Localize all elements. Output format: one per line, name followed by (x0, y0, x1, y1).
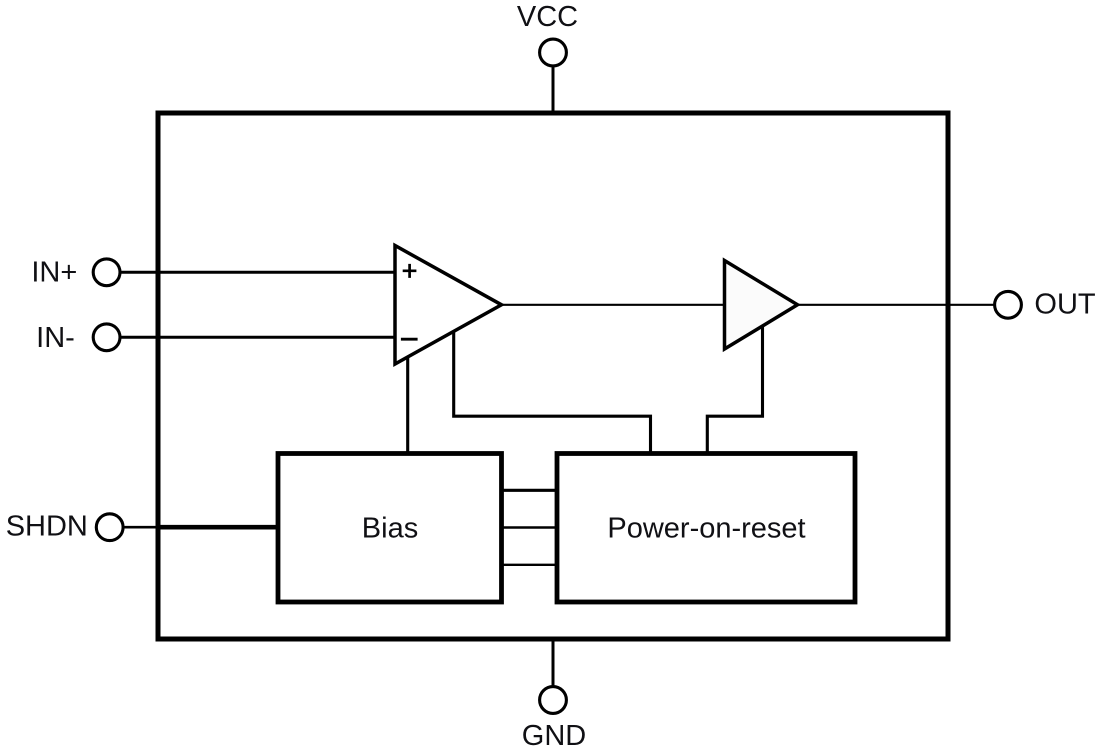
wire comparator inverting input down to Bias (406, 350, 409, 455)
connector line 3 between Bias and Power-on-reset (501, 564, 557, 566)
svg-text:SHDN: SHDN (6, 511, 88, 543)
svg-text:GND: GND (522, 720, 586, 748)
pin circle IN- (93, 324, 120, 351)
wire GND bottom edge to pin (552, 639, 555, 688)
pin circle GND (540, 687, 567, 714)
wire SHDN thick segment to Bias (156, 525, 280, 530)
svg-text:Power-on-reset: Power-on-reset (607, 513, 805, 545)
wire buffer output to OUT pin (796, 304, 995, 306)
wire SHDN thin segment (122, 526, 158, 529)
connector line 2 between Bias and Power-on-reset (501, 526, 557, 528)
pin circle OUT (995, 291, 1022, 318)
svg-text:IN-: IN- (36, 322, 75, 354)
wire IN- to comparator (119, 336, 397, 339)
IC outline box (158, 113, 948, 639)
wire comparator output down to Power-on-reset (454, 328, 651, 455)
wire VCC pin to top edge (552, 65, 555, 113)
svg-text:VCC: VCC (517, 1, 578, 33)
pin circle VCC (540, 39, 567, 66)
comparator plus input mark (403, 264, 417, 278)
pin circle IN+ (93, 259, 120, 286)
Power-on-reset block (557, 454, 855, 603)
wire buffer output down to Power-on-reset (707, 323, 762, 455)
comparator U1 triangle (395, 246, 502, 365)
svg-text:OUT: OUT (1034, 289, 1096, 321)
wire comparator output to buffer input (500, 304, 726, 306)
pin circle SHDN (96, 514, 123, 541)
Bias block (278, 454, 502, 603)
svg-text:IN+: IN+ (31, 256, 77, 288)
output buffer U2 triangle (725, 261, 798, 350)
wire IN+ to comparator (119, 271, 397, 274)
connector line 1 between Bias and Power-on-reset (501, 489, 557, 492)
comparator minus input mark (401, 338, 418, 341)
svg-text:Bias: Bias (362, 513, 418, 545)
